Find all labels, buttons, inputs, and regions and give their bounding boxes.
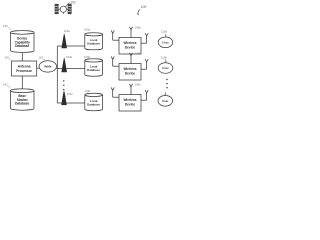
ellipsis dots right: [166, 79, 167, 89]
user oval 1: [158, 37, 173, 48]
svg-text:Device: Device: [125, 46, 136, 50]
svg-text:User: User: [162, 41, 169, 45]
label 142: [3, 83, 11, 89]
ellipsis dots middle: [63, 80, 64, 90]
wireless device box 2: [119, 64, 141, 81]
svg-text:Device: Device: [125, 103, 136, 107]
svg-text:100: 100: [141, 5, 147, 9]
label 110b: [161, 55, 167, 62]
antenna left WD2: [111, 56, 119, 66]
svg-text:Database: Database: [87, 42, 100, 46]
antenna right WD3: [141, 90, 148, 100]
device capability database cylinder: [11, 31, 35, 53]
antenna right WD2: [141, 59, 148, 69]
base station database cylinder: [11, 89, 35, 110]
svg-text:120: 120: [4, 55, 9, 59]
tower 104c: [61, 91, 67, 105]
svg-text:User: User: [162, 99, 169, 103]
network ellipse WAN: [39, 61, 56, 72]
label 106c: [85, 89, 92, 95]
svg-text:140: 140: [3, 24, 8, 28]
svg-text:Processor: Processor: [16, 69, 32, 73]
svg-text:104b: 104b: [66, 55, 73, 59]
svg-text:WAN: WAN: [44, 65, 52, 69]
svg-text:104c: 104c: [67, 92, 74, 96]
antenna left WD1: [111, 30, 119, 40]
svg-text:106b: 106b: [84, 55, 91, 59]
svg-text:104a: 104a: [64, 29, 71, 33]
local database cylinder 106c: [85, 93, 103, 110]
svg-text:108c: 108c: [135, 83, 142, 87]
antenna top WD1: [130, 27, 133, 38]
label 100 with curved arrow: [137, 5, 146, 15]
svg-text:Wireless: Wireless: [123, 41, 136, 45]
antenna processor box: [12, 61, 37, 76]
satellite U100: [55, 3, 71, 14]
wireless device box 3: [119, 95, 141, 112]
svg-text:102: 102: [70, 0, 76, 4]
antenna right WD1: [141, 33, 148, 43]
svg-text:Database: Database: [15, 44, 29, 48]
svg-text:Wireless: Wireless: [123, 67, 136, 71]
user oval 3: [158, 96, 173, 107]
label 116: [38, 56, 45, 62]
svg-text:142: 142: [3, 83, 8, 87]
svg-text:User: User: [162, 66, 169, 70]
wireless device box 1: [119, 38, 141, 55]
wire database to processor: [21, 53, 23, 61]
tower 104b: [61, 58, 67, 73]
svg-text:Database: Database: [15, 102, 29, 106]
wire row3 horizontal: [57, 102, 85, 104]
local database cylinder 106b: [85, 59, 103, 76]
local database cylinder 106a: [85, 33, 103, 50]
user oval 2: [158, 63, 173, 74]
svg-text:110b: 110b: [161, 55, 167, 59]
wire processor to network: [37, 67, 40, 69]
label 104c: [65, 92, 73, 97]
bus vertical wire: [56, 46, 58, 103]
svg-text:Database: Database: [87, 68, 100, 72]
svg-text:106c: 106c: [85, 89, 92, 93]
label 140: [3, 24, 11, 30]
svg-text:Database: Database: [87, 102, 100, 106]
label 110a: [161, 30, 167, 38]
svg-text:108a: 108a: [135, 26, 142, 30]
svg-text:Wireless: Wireless: [123, 98, 136, 102]
label 120: [4, 55, 12, 61]
svg-text:116: 116: [38, 56, 43, 60]
svg-text:108b: 108b: [135, 52, 142, 56]
svg-text:106a: 106a: [84, 27, 91, 31]
wire row1 horizontal: [57, 45, 85, 47]
wire row2 horizontal: [57, 68, 85, 70]
svg-text:Device: Device: [125, 72, 136, 76]
wire processor to base station database: [21, 76, 23, 89]
antenna top WD2: [130, 53, 133, 64]
tower 104a: [61, 34, 67, 49]
label 110c stem: [164, 92, 166, 95]
antenna top WD3: [130, 84, 133, 95]
antenna left WD3: [111, 87, 119, 97]
svg-text:110a: 110a: [161, 30, 167, 34]
